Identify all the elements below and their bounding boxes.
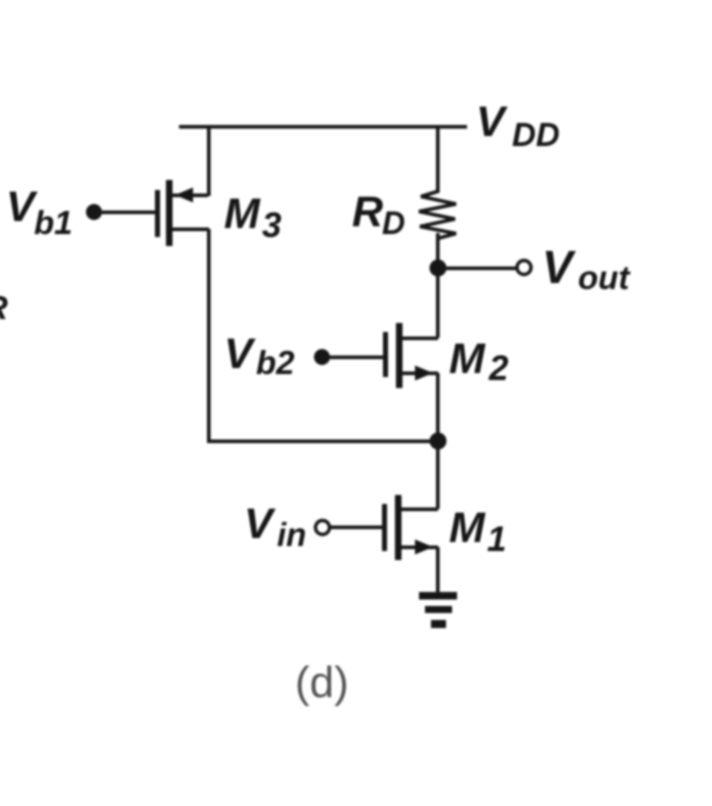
svg-text:(d): (d) — [295, 658, 349, 707]
svg-text:R: R — [352, 188, 383, 236]
svg-text:M: M — [224, 190, 261, 238]
terminal Vb2 — [314, 349, 330, 365]
node A junction — [430, 433, 447, 450]
wire VDD rail to RD — [436, 127, 440, 193]
svg-text:M: M — [449, 335, 486, 383]
terminal Vin — [316, 521, 330, 535]
wire VDD rail to M3 source — [207, 127, 211, 196]
svg-text:V: V — [476, 98, 508, 146]
wire Vb1 to M3 gate — [100, 211, 156, 215]
transistor M1 — [382, 495, 438, 560]
svg-text:M: M — [449, 504, 486, 552]
terminal Vout — [517, 261, 531, 275]
transistor M2 — [383, 323, 438, 388]
svg-text:D: D — [382, 205, 405, 241]
wire VDD rail — [179, 125, 467, 129]
svg-text:DD: DD — [512, 116, 560, 153]
svg-text:V: V — [244, 500, 276, 548]
svg-text:3: 3 — [262, 206, 282, 245]
wire Vin to M1 gate — [330, 526, 383, 530]
node Vout junction — [430, 260, 447, 277]
resistor RD — [419, 192, 456, 239]
wire Vout node to M2 drain — [436, 268, 440, 338]
wire Vb2 to M2 gate — [328, 356, 384, 360]
svg-text:b2: b2 — [256, 344, 295, 381]
svg-text:b1: b1 — [34, 204, 73, 241]
svg-text:R: R — [0, 289, 8, 326]
wire Vout node to terminal — [438, 267, 517, 271]
transistor M3 — [155, 180, 209, 246]
terminal Vb1 — [86, 204, 102, 220]
svg-text:V: V — [224, 330, 256, 378]
svg-text:2: 2 — [488, 349, 509, 388]
wire left branch to node A — [207, 440, 438, 444]
wire M3 drain down left side — [207, 229, 211, 442]
svg-text:out: out — [578, 259, 631, 296]
wire M1 source to ground — [436, 547, 440, 594]
svg-text:V: V — [542, 241, 576, 293]
wire M2 source to node A — [436, 373, 440, 441]
svg-text:1: 1 — [487, 520, 506, 559]
svg-text:in: in — [277, 516, 306, 553]
ground — [419, 592, 457, 628]
wire node A to M1 drain — [436, 441, 440, 509]
wire RD to Vout node — [436, 233, 440, 268]
